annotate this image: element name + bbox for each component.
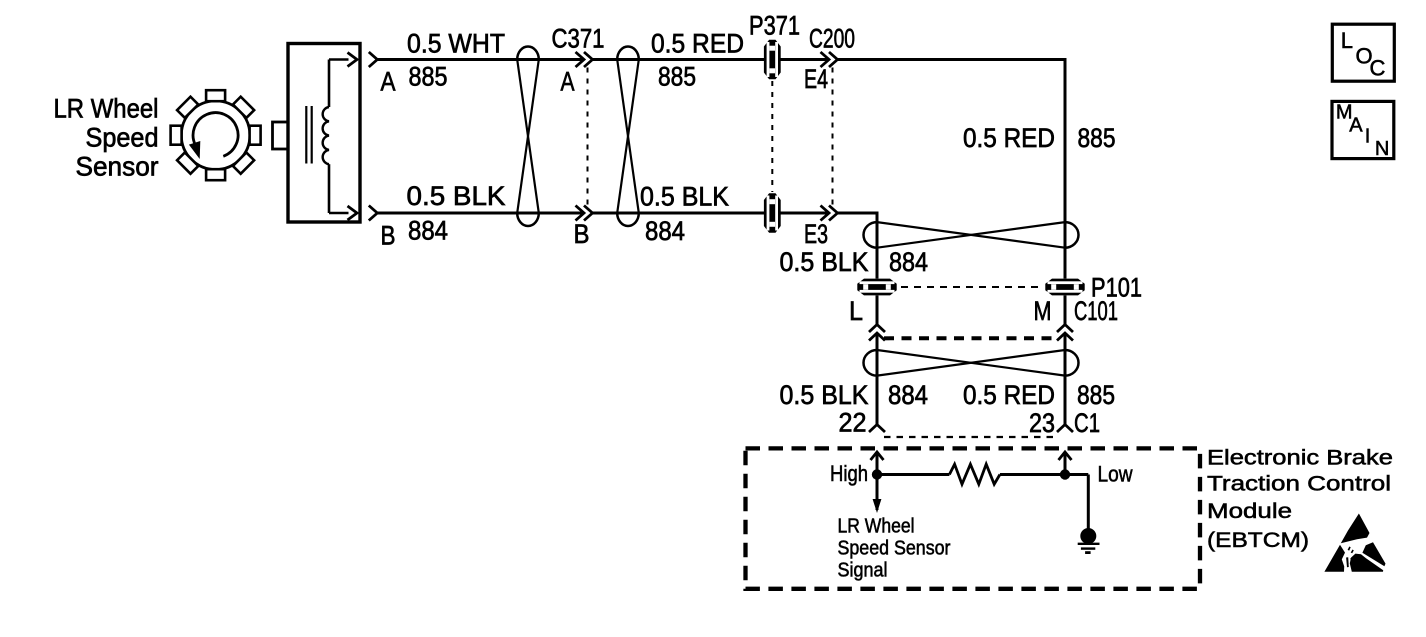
svg-text:Sensor: Sensor bbox=[76, 152, 159, 182]
inline connector P371 on row A bbox=[764, 40, 781, 79]
label terminal B bbox=[381, 221, 396, 251]
wire: right column C101 to C1 bbox=[1064, 333, 1067, 425]
inline connector P371 on row B bbox=[764, 193, 781, 232]
wire: C371 to P371 row A bbox=[593, 58, 765, 61]
svg-text:Traction Control: Traction Control bbox=[1207, 472, 1391, 496]
twisted pair symbol (after C371) bbox=[617, 47, 639, 226]
label 0.5 RED (below C101) bbox=[963, 380, 1055, 410]
label 884 (above P101) bbox=[889, 247, 928, 277]
tone wheel (toothed ring) of LR wheel speed sensor bbox=[171, 90, 261, 180]
twisted pair symbol (below C101) bbox=[864, 350, 1079, 376]
label 884 (below C101) bbox=[888, 380, 928, 410]
svg-text:N: N bbox=[1375, 138, 1389, 160]
svg-text:E4: E4 bbox=[804, 64, 828, 94]
svg-text:A: A bbox=[561, 67, 575, 97]
wire: left column from E3 down to P101 bbox=[876, 213, 879, 279]
label C200 bbox=[809, 24, 855, 54]
svg-text:B: B bbox=[574, 219, 590, 249]
svg-text:I: I bbox=[1365, 126, 1371, 148]
label terminal E4 bbox=[804, 64, 828, 94]
svg-text:884: 884 bbox=[888, 380, 928, 410]
LOC button bbox=[1332, 24, 1394, 81]
label C101 bbox=[1074, 296, 1118, 326]
EBTCM entry arrow (Low) bbox=[1059, 452, 1072, 475]
wire: sensor B to C371 bbox=[377, 212, 584, 215]
svg-text:C200: C200 bbox=[809, 24, 855, 54]
svg-text:885: 885 bbox=[1078, 123, 1116, 153]
internal arrow to terminal A bbox=[348, 53, 358, 67]
label terminal E3 bbox=[804, 219, 828, 249]
inline connector P101 left bbox=[857, 279, 896, 296]
svg-text:E3: E3 bbox=[804, 219, 828, 249]
label 0.5 BLK (row B after C371) bbox=[640, 182, 729, 212]
junction dot High bbox=[872, 469, 882, 479]
P101 dashed line bbox=[901, 286, 1043, 288]
label P371 bbox=[749, 11, 800, 41]
ground symbol bbox=[1078, 528, 1100, 553]
label LR Wheel Speed Sensor Signal bbox=[838, 515, 951, 581]
label 0.5 BLK (above P101) bbox=[780, 247, 869, 277]
signal arrow down bbox=[873, 475, 882, 514]
label Low bbox=[1098, 462, 1133, 487]
svg-text:0.5 BLK: 0.5 BLK bbox=[780, 380, 869, 410]
wire: left column P101 to C101 bbox=[876, 296, 879, 325]
wire: sensor A to C371 bbox=[377, 58, 584, 61]
wire: right column from C200 down to P101 bbox=[1064, 60, 1067, 279]
svg-text:LR Wheel: LR Wheel bbox=[54, 94, 159, 124]
label 0.5 RED (row A) bbox=[651, 29, 744, 59]
label terminal L bbox=[849, 296, 863, 326]
svg-text:885: 885 bbox=[1077, 380, 1115, 410]
svg-text:22: 22 bbox=[839, 408, 867, 438]
svg-text:(EBTCM): (EBTCM) bbox=[1207, 528, 1309, 552]
svg-text:0.5 RED: 0.5 RED bbox=[963, 123, 1055, 153]
connector C371 terminal chevrons row A bbox=[576, 52, 593, 67]
twisted pair symbol (above P101) bbox=[864, 222, 1079, 248]
svg-text:B: B bbox=[381, 221, 396, 251]
EBTCM entry arrow (High) bbox=[871, 452, 884, 475]
svg-text:0.5 RED: 0.5 RED bbox=[651, 29, 744, 59]
label: LR Wheel Speed Sensor bbox=[54, 94, 159, 182]
connector C200 terminal chevrons bbox=[821, 52, 838, 67]
label pin 23 bbox=[1029, 408, 1055, 438]
label 885 (circuit, WHT segment) bbox=[409, 62, 448, 92]
svg-text:A: A bbox=[1349, 114, 1363, 136]
svg-text:High: High bbox=[830, 461, 868, 486]
svg-text:884: 884 bbox=[889, 247, 928, 277]
wire: right column P101 to C101 bbox=[1064, 296, 1067, 325]
svg-text:A: A bbox=[381, 67, 396, 97]
svg-text:Speed: Speed bbox=[86, 123, 159, 153]
wire: left column C101 to C1 bbox=[876, 333, 879, 425]
svg-text:L: L bbox=[849, 296, 863, 326]
wire: High junction to resistor bbox=[877, 473, 949, 476]
svg-text:P371: P371 bbox=[749, 11, 800, 41]
connector C1 chevron left bbox=[869, 425, 885, 433]
svg-text:0.5 BLK: 0.5 BLK bbox=[407, 181, 506, 211]
svg-text:885: 885 bbox=[409, 62, 448, 92]
svg-text:LR Wheel: LR Wheel bbox=[838, 515, 915, 537]
svg-text:Electronic Brake: Electronic Brake bbox=[1207, 445, 1393, 469]
connector C101 chevrons right bbox=[1057, 325, 1073, 341]
connector C371 terminal chevrons row B bbox=[576, 206, 593, 221]
label pin B at C371 bbox=[574, 219, 590, 249]
connector C371 dashed line bbox=[587, 68, 589, 206]
label terminal M bbox=[1034, 296, 1052, 326]
wire: P371 to C200 bbox=[781, 58, 830, 61]
C101 dashed line bbox=[884, 336, 1057, 340]
label 884 (row B after C371) bbox=[645, 216, 685, 246]
resistor (sensor signal load) bbox=[949, 464, 1000, 484]
wire: C200 to right column corner bbox=[838, 58, 1067, 61]
internal arrow to terminal B bbox=[348, 206, 358, 220]
label 0.5 BLK (first segment) bbox=[407, 181, 506, 211]
svg-text:Module: Module bbox=[1207, 499, 1292, 523]
wire: Low junction to ground drop bbox=[1065, 475, 1088, 529]
svg-text:885: 885 bbox=[658, 62, 696, 92]
svg-text:Signal: Signal bbox=[838, 559, 888, 581]
wire: C371 to P371 row B bbox=[593, 212, 765, 215]
svg-text:0.5 BLK: 0.5 BLK bbox=[640, 182, 729, 212]
svg-text:884: 884 bbox=[408, 216, 448, 246]
label Electronic Brake Traction Control Module (EBTCM) bbox=[1207, 445, 1393, 552]
wire: E3 to left column corner bbox=[838, 212, 879, 215]
connector C200 terminal chevrons row B bbox=[821, 206, 838, 221]
sensor magnetic core lines bbox=[306, 106, 311, 164]
svg-text:C101: C101 bbox=[1074, 296, 1118, 326]
svg-text:Low: Low bbox=[1098, 462, 1133, 487]
svg-text:0.5 WHT: 0.5 WHT bbox=[407, 29, 505, 59]
label 885 (row A after C371) bbox=[658, 62, 696, 92]
label 0.5 WHT bbox=[407, 29, 505, 59]
label 0.5 RED (right column) bbox=[963, 123, 1055, 153]
label C371 bbox=[552, 23, 605, 53]
connector C200 dashed line bbox=[832, 68, 834, 206]
svg-text:0.5 RED: 0.5 RED bbox=[963, 380, 1055, 410]
sensor pickup tab bbox=[273, 122, 289, 149]
connector C1 chevron right bbox=[1057, 425, 1073, 433]
C1 dashed line bbox=[884, 436, 1057, 438]
EBTCM module dashed box bbox=[746, 448, 1201, 588]
svg-text:C: C bbox=[1370, 56, 1386, 81]
connector C101 chevrons left bbox=[869, 325, 885, 341]
sensor pickup coil L1 bbox=[323, 60, 349, 214]
label C1 bbox=[1074, 408, 1100, 438]
terminal A chevron bbox=[369, 52, 378, 67]
svg-text:0.5 BLK: 0.5 BLK bbox=[780, 247, 869, 277]
P371 dashed line bbox=[771, 81, 773, 192]
terminal B chevron bbox=[369, 206, 378, 221]
label pin 22 bbox=[839, 408, 867, 438]
label pin A at C371 bbox=[561, 67, 575, 97]
label High bbox=[830, 461, 868, 486]
label 885 (below C101) bbox=[1077, 380, 1115, 410]
ESD sensitive device symbol bbox=[1324, 514, 1385, 572]
MAIN button bbox=[1332, 101, 1394, 159]
wire: P371 to E3 chevrons bbox=[781, 212, 830, 215]
label 884 (first segment) bbox=[408, 216, 448, 246]
svg-text:C371: C371 bbox=[552, 23, 605, 53]
inline connector P101 right bbox=[1045, 279, 1084, 296]
wheel speed sensor body bbox=[288, 44, 360, 223]
svg-text:C1: C1 bbox=[1074, 408, 1100, 438]
junction dot Low bbox=[1060, 469, 1070, 479]
twisted pair symbol (WHT/BLK before C371) bbox=[517, 47, 539, 226]
wire: resistor to Low junction bbox=[1000, 473, 1065, 476]
svg-text:23: 23 bbox=[1029, 408, 1055, 438]
svg-text:Speed Sensor: Speed Sensor bbox=[838, 537, 951, 559]
label 885 (right column) bbox=[1078, 123, 1116, 153]
svg-text:L: L bbox=[1341, 28, 1353, 53]
rotation arrow inside tone wheel bbox=[189, 113, 238, 159]
label P101 bbox=[1091, 273, 1142, 303]
svg-text:884: 884 bbox=[645, 216, 685, 246]
svg-text:M: M bbox=[1034, 296, 1052, 326]
label terminal A bbox=[381, 67, 396, 97]
label 0.5 BLK (below C101) bbox=[780, 380, 869, 410]
